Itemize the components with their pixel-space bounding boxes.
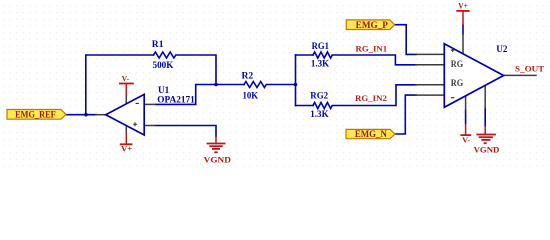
svg-text:10K: 10K bbox=[243, 90, 259, 101]
svg-text:RG: RG bbox=[451, 60, 464, 70]
svg-text:R1: R1 bbox=[152, 39, 164, 50]
svg-text:VGND: VGND bbox=[204, 154, 231, 164]
svg-text:RG_IN2: RG_IN2 bbox=[355, 93, 387, 103]
svg-text:OPA2171: OPA2171 bbox=[157, 94, 195, 105]
svg-text:S_OUT: S_OUT bbox=[515, 64, 544, 74]
svg-text:U2: U2 bbox=[496, 44, 508, 54]
svg-text:RG: RG bbox=[451, 79, 464, 89]
svg-text:RG1: RG1 bbox=[312, 41, 329, 52]
svg-text:VGND: VGND bbox=[474, 144, 500, 154]
svg-text:1.3K: 1.3K bbox=[311, 59, 330, 70]
svg-text:EMG_REF: EMG_REF bbox=[15, 111, 56, 121]
svg-text:V+: V+ bbox=[458, 1, 468, 11]
svg-text:V+: V+ bbox=[121, 143, 132, 153]
svg-text:V-: V- bbox=[122, 74, 130, 83]
svg-text:RG_IN1: RG_IN1 bbox=[356, 44, 388, 54]
svg-text:RG2: RG2 bbox=[310, 91, 328, 102]
svg-text:500K: 500K bbox=[153, 60, 174, 71]
svg-text:EMG_N: EMG_N bbox=[355, 129, 387, 139]
svg-text:V-: V- bbox=[462, 135, 471, 144]
svg-text:1.3K: 1.3K bbox=[310, 109, 329, 120]
svg-text:EMG_P: EMG_P bbox=[356, 20, 389, 30]
svg-text:R2: R2 bbox=[242, 71, 254, 82]
